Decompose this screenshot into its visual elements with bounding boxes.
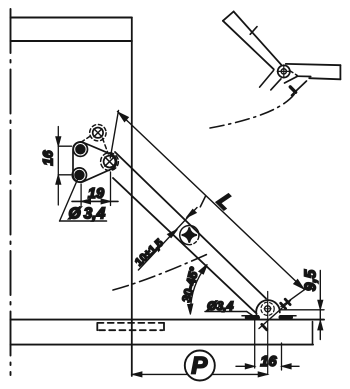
svg-text:P: P: [191, 353, 208, 380]
dimension 19: [72, 172, 118, 206]
arc arrow top: [199, 264, 208, 274]
dimension 10+-1,5 line: [138, 208, 197, 271]
svg-text:30-45°: 30-45°: [179, 265, 201, 303]
body top edge: [11, 17, 132, 19]
bolt shank diagonal: [259, 301, 291, 329]
dimension L line: [118, 112, 305, 290]
body base bottom line: [11, 344, 314, 346]
arm upper edge: [115, 152, 266, 299]
hole C dashed circle: [101, 153, 119, 171]
svg-text:L: L: [212, 189, 237, 214]
foot line left: [242, 315, 259, 317]
dimension 16 bottom: [236, 365, 255, 367]
dimension 16 vertical line: [58, 127, 71, 206]
leader underline lower: [205, 311, 247, 313]
bolt head strokes lower left: [262, 324, 267, 329]
upper bar edge right: [234, 12, 282, 65]
pivot plate outline: [73, 142, 117, 182]
dimension P line: [133, 373, 268, 375]
dashed plate edges to alternate position: [81, 135, 92, 142]
arm lower edge: [113, 178, 257, 314]
arrow toward arm upper edge from below: [168, 229, 178, 237]
body second edge: [11, 40, 132, 42]
L arrowhead top: [118, 112, 128, 121]
svg-text:10±1,5: 10±1,5: [133, 237, 166, 269]
upper bar edge left: [223, 21, 274, 70]
body base right edge: [312, 322, 314, 345]
alternate hole D (dashed position): [93, 128, 103, 138]
bracket tab top: [297, 75, 311, 77]
bracket tab right: [292, 81, 307, 95]
hidden slot dashed rectangle: [97, 323, 164, 330]
hole C right (cross): [104, 156, 116, 168]
bracket edge perpendicular 2: [271, 79, 281, 90]
extension line pivot center vertical: [267, 292, 269, 375]
hole A upper-left (filled): [73, 142, 87, 156]
bracket tab pad thick: [290, 87, 295, 92]
svg-text:19: 19: [88, 186, 104, 202]
L bottom extension (bolt axis): [281, 286, 310, 307]
starburst pin on arm: [180, 225, 199, 244]
bracket edge perpendicular 1: [260, 70, 274, 87]
horizontal bar top edge: [286, 64, 341, 65]
horizontal bar bottom edge: [309, 78, 340, 79]
extension line right foot: [281, 343, 283, 370]
bottom pivot dome: [256, 300, 280, 314]
foot pad left (thick): [247, 316, 258, 320]
body base top line: [11, 319, 325, 321]
centerline body vertical: [10, 9, 12, 375]
swing arc lower (dash-dot): [113, 253, 210, 290]
arc arrow bottom: [188, 304, 193, 315]
tick on L line: [200, 196, 205, 207]
body right edge: [131, 18, 133, 377]
L arrowhead bottom: [294, 280, 304, 289]
svg-text:9,5: 9,5: [303, 269, 320, 291]
horizontal bar end cap: [339, 65, 341, 79]
svg-text:16: 16: [260, 354, 277, 370]
swing arc upper (dash-dot): [210, 91, 297, 128]
bolt circle: [265, 306, 271, 312]
tick on upper bar: [250, 27, 257, 35]
upper pivot circle: [278, 65, 290, 77]
leader line diameter 3,4 upper: [60, 180, 78, 222]
svg-text:16: 16: [41, 150, 56, 166]
reference line for 9,5: [281, 309, 325, 311]
arrow toward arm upper edge from above: [186, 209, 196, 217]
foot pad right (thick): [281, 315, 292, 319]
foot line right: [280, 315, 296, 317]
svg-text:Ø 3,4: Ø 3,4: [69, 206, 106, 223]
upper bar end cap: [223, 12, 234, 21]
P circle: [185, 351, 215, 381]
hole B lower-left (filled): [72, 168, 86, 182]
bracket tab left: [285, 76, 298, 83]
dimension 9,5 vertical: [319, 271, 321, 340]
angle arc 30-45: [191, 266, 207, 312]
hidden edge dashed: [290, 71, 298, 76]
L top extension oblique: [110, 111, 118, 159]
extension line left foot: [254, 319, 256, 369]
bolt nut strokes upper right: [281, 303, 286, 308]
